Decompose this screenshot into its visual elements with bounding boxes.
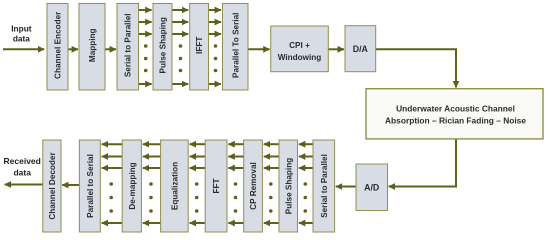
node dots: between FFT and CP Removal (bottom)	[234, 182, 238, 213]
wire bundle: IFFT to Parallel To Serial (top)	[209, 10, 222, 84]
node dots: between Pulse Shaping and IFFT	[179, 44, 183, 72]
block: Parallel To Serial (top)	[223, 4, 249, 91]
block: CPI + Windowing	[271, 26, 329, 72]
svg-text:Received: Received	[4, 156, 41, 166]
svg-text:Serial to Parallel: Serial to Parallel	[320, 154, 329, 218]
svg-text:A/D: A/D	[364, 182, 379, 192]
svg-text:Channel Decoder: Channel Decoder	[48, 152, 57, 220]
svg-text:Input: Input	[11, 24, 32, 34]
svg-text:data: data	[13, 33, 30, 43]
block: Serial to Parallel (top)	[117, 4, 139, 91]
wire bundle: De-mapping to Equalization (bottom, leftward)	[143, 144, 161, 223]
wire: Parallel To Serial to CPI + Windowing	[248, 48, 270, 50]
wire: Channel Decoder to Received data output	[5, 184, 43, 186]
node label: Input data	[11, 24, 32, 44]
node dots: between CP Removal and Pulse Shaping (bottom)	[269, 182, 273, 213]
svg-text:IFFT: IFFT	[195, 37, 204, 54]
node dots: between Pulse Shaping and Serial to Parallel (bottom)	[304, 182, 308, 213]
wire: Underwater Acoustic Channel to A/D (down then left)	[389, 139, 456, 187]
block: Equalization	[161, 140, 189, 232]
block: Mapping	[79, 4, 105, 91]
block: Pulse Shaping (top)	[153, 4, 172, 91]
svg-text:CP Removal: CP Removal	[249, 162, 258, 210]
block: De-mapping	[122, 140, 141, 232]
node dots: between Serial to Parallel and Pulse Shaping	[144, 44, 148, 72]
svg-text:Mapping: Mapping	[88, 28, 97, 62]
svg-text:Serial to Parallel: Serial to Parallel	[124, 13, 133, 77]
wire bundle: Serial to Parallel to Pulse Shaping (top, 4 arrows + dots)	[139, 10, 152, 84]
block: Serial to Parallel (bottom)	[313, 140, 335, 232]
wire: D/A to Underwater Acoustic Channel (right then down)	[376, 49, 456, 87]
node dots: between De-mapping and Equalization (bottom)	[149, 182, 153, 213]
svg-text:data: data	[13, 167, 31, 177]
svg-text:Equalization: Equalization	[170, 162, 179, 210]
svg-text:Underwater Acoustic Channel: Underwater Acoustic Channel	[396, 104, 515, 114]
wire bundle: FFT to CP Removal (bottom, leftward)	[228, 144, 243, 223]
block: Channel Decoder	[43, 140, 61, 232]
wire: CPI + Windowing to D/A	[328, 48, 344, 50]
wire bundle: Equalization to FFT (bottom, leftward)	[190, 144, 206, 223]
svg-text:Parallel to Serial: Parallel to Serial	[86, 154, 95, 218]
wire bundle: Parallel to Serial to De-mapping (bottom, leftward)	[102, 144, 123, 223]
svg-text:D/A: D/A	[353, 44, 369, 54]
block: Pulse Shaping (bottom)	[279, 140, 298, 232]
block: IFFT	[190, 4, 209, 91]
wire bundle: Pulse Shaping to Serial to Parallel (bottom, leftward)	[299, 144, 313, 223]
node dots: between IFFT and Parallel To Serial	[214, 44, 218, 72]
block: Underwater Acoustic Channel	[366, 89, 543, 139]
wire bundle: CP Removal to Pulse Shaping (bottom, leftward)	[264, 144, 279, 223]
svg-text:Windowing: Windowing	[278, 53, 322, 62]
block: Parallel to Serial (bottom)	[79, 140, 100, 232]
svg-text:Pulse Shaping: Pulse Shaping	[284, 158, 293, 214]
wire: Mapping to Serial to Parallel	[105, 48, 116, 50]
svg-text:FFT: FFT	[212, 178, 221, 193]
svg-text:Parallel To Serial: Parallel To Serial	[232, 13, 241, 78]
svg-text:Channel Encoder: Channel Encoder	[54, 11, 63, 79]
block: Channel Encoder	[47, 4, 68, 91]
node label: Received data	[4, 156, 41, 177]
svg-text:Absorption – Rician Fading – N: Absorption – Rician Fading – Noise	[385, 116, 526, 126]
wire: input data arrow	[3, 48, 44, 50]
svg-text:CPI +: CPI +	[289, 41, 310, 50]
wire: Parallel to Serial to Channel Decoder	[62, 184, 79, 186]
block: A/D converter	[356, 164, 388, 211]
block: D/A converter	[345, 26, 376, 72]
block: FFT	[205, 140, 227, 232]
wire: A/D to Serial to Parallel (bottom)	[336, 186, 356, 188]
node dots: between Parallel to Serial and De-mapping (bottom)	[109, 182, 113, 213]
node dots: between Equalization and FFT (bottom)	[195, 182, 199, 213]
wire bundle: Pulse Shaping to IFFT (top)	[172, 10, 188, 84]
svg-text:Pulse Shaping: Pulse Shaping	[159, 17, 168, 73]
wire: Channel Encoder to Mapping	[68, 48, 78, 50]
block: CP Removal	[244, 140, 263, 232]
svg-text:De-mapping: De-mapping	[128, 162, 137, 209]
